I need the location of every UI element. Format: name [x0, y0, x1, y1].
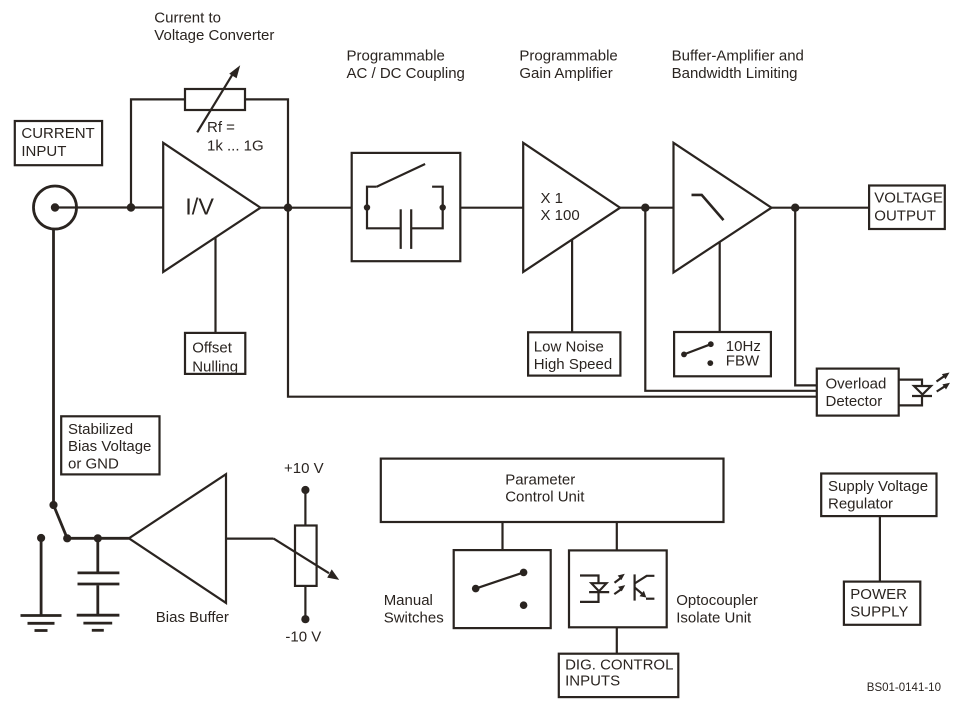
- wire regulator to power supply: [879, 516, 881, 582]
- svg-text:Isolate Unit: Isolate Unit: [676, 609, 752, 626]
- svg-text:Parameter: Parameter: [505, 471, 575, 488]
- svg-text:or GND: or GND: [68, 456, 119, 473]
- svg-text:Bandwidth Limiting: Bandwidth Limiting: [672, 65, 798, 82]
- POWER SUPPLY box: [844, 582, 920, 625]
- svg-text:Overload: Overload: [826, 376, 887, 393]
- svg-text:Bias Buffer: Bias Buffer: [156, 609, 229, 626]
- svg-text:Rf =: Rf =: [207, 119, 235, 136]
- VOLTAGE OUTPUT box: [869, 186, 945, 230]
- wire feedback right: [245, 99, 288, 207]
- capacitor C1 in coupling box: [367, 208, 443, 249]
- wire optocoupler to dig inputs: [616, 627, 618, 653]
- node buffer output: [791, 204, 799, 212]
- LED D2 in optocoupler: [580, 576, 609, 602]
- wire feedback left+top: [131, 99, 185, 207]
- svg-text:X 100: X 100: [541, 207, 580, 224]
- svg-text:Supply Voltage: Supply Voltage: [828, 478, 928, 495]
- Stabilized Bias Voltage or GND box: [61, 416, 159, 474]
- switch S2 bias select arm: [54, 505, 68, 538]
- svg-text:Gain Amplifier: Gain Amplifier: [519, 65, 612, 82]
- GND contact of bias switch: [37, 534, 45, 615]
- label: Current to Voltage Converter: [154, 10, 274, 44]
- ground symbol under capacitor: [77, 615, 120, 630]
- wire I/V output down to overload bus: [288, 208, 817, 397]
- +10 V supply terminal: [284, 460, 324, 525]
- svg-text:SUPPLY: SUPPLY: [850, 603, 908, 620]
- CURRENT INPUT box: [15, 121, 102, 165]
- svg-text:1k ... 1G: 1k ... 1G: [207, 138, 264, 155]
- wire bias rail: [67, 537, 129, 540]
- label: Optocoupler Isolate Unit: [676, 592, 758, 627]
- wire input to I/V: [59, 206, 163, 208]
- LED light arrows: [937, 373, 951, 392]
- svg-text:BS01-0141-10: BS01-0141-10: [867, 682, 941, 694]
- op-amp U1 I/V converter: [163, 143, 260, 272]
- Overload Detector box: [817, 369, 899, 416]
- amplifier U4 bias buffer: [129, 474, 226, 603]
- Parameter Control Unit box: [381, 459, 724, 522]
- wire input down to bias switch: [52, 230, 55, 506]
- Supply Voltage Regulator box: [821, 474, 936, 517]
- variable resistor arrow: [197, 65, 240, 132]
- node capacitor tap: [94, 534, 102, 542]
- Offset Nulling box: [185, 333, 245, 376]
- node I/V output: [284, 204, 292, 212]
- svg-text:INPUTS: INPUTS: [565, 672, 620, 689]
- svg-text:Offset: Offset: [192, 339, 233, 356]
- svg-text:Detector: Detector: [826, 393, 883, 410]
- svg-text:INPUT: INPUT: [21, 143, 66, 160]
- svg-text:Bias Voltage: Bias Voltage: [68, 438, 151, 455]
- wire PCU to manual switches: [501, 522, 503, 550]
- svg-text:Low Noise: Low Noise: [534, 339, 604, 356]
- ground symbol left: [21, 616, 62, 631]
- label: Programmable AC / DC Coupling: [347, 47, 465, 82]
- svg-text:Manual: Manual: [384, 592, 433, 609]
- -10 V supply terminal: [285, 586, 321, 646]
- phototransistor Q1 in optocoupler: [635, 574, 655, 600]
- resistor Rf: [185, 89, 245, 110]
- wire gain amp to low noise box: [571, 240, 573, 333]
- AC/DC coupling box: [352, 153, 461, 261]
- svg-text:Programmable: Programmable: [347, 47, 445, 64]
- svg-text:OUTPUT: OUTPUT: [874, 208, 936, 225]
- wire bias buffer output: [226, 537, 274, 539]
- Manual Switches box: [454, 550, 551, 628]
- wire buffer output down to overload detector: [795, 208, 817, 386]
- svg-text:Regulator: Regulator: [828, 496, 893, 513]
- wire buffer to 10Hz box: [719, 242, 721, 332]
- Optocoupler box: [569, 550, 667, 627]
- input connector circle: [34, 186, 77, 229]
- label: Manual Switches: [384, 592, 444, 627]
- potentiometer R2: [274, 526, 340, 586]
- svg-text:Programmable: Programmable: [519, 47, 617, 64]
- svg-text:POWER: POWER: [850, 586, 907, 603]
- svg-text:Voltage Converter: Voltage Converter: [154, 27, 274, 44]
- svg-text:Nulling: Nulling: [192, 359, 238, 376]
- amplifier U3 buffer with bandwidth limiting: [674, 143, 772, 273]
- svg-text:X 1: X 1: [541, 190, 564, 207]
- svg-text:FBW: FBW: [726, 352, 760, 369]
- svg-text:Control Unit: Control Unit: [505, 489, 585, 506]
- svg-text:VOLTAGE: VOLTAGE: [874, 190, 943, 207]
- label: Programmable Gain Amplifier: [519, 47, 617, 82]
- svg-text:Current to: Current to: [154, 10, 221, 27]
- svg-text:+10 V: +10 V: [284, 460, 324, 477]
- svg-text:Optocoupler: Optocoupler: [676, 592, 758, 609]
- svg-text:CURRENT: CURRENT: [21, 125, 94, 142]
- wire I/V output to coupling box: [261, 207, 352, 209]
- Low Noise High Speed box: [528, 332, 620, 375]
- node bias switch pole: [49, 501, 57, 509]
- node gain output: [641, 204, 649, 212]
- switch S1 in coupling box: [364, 164, 446, 211]
- node input junction: [127, 203, 135, 211]
- svg-text:AC / DC Coupling: AC / DC Coupling: [347, 65, 465, 82]
- LED D1 overload indicator: [899, 380, 932, 406]
- wire coupling to gain amp: [460, 207, 523, 209]
- label: Rf = 1k ... 1G: [207, 119, 264, 155]
- wire gain output down to overload bus: [645, 208, 817, 391]
- node bias rail left: [63, 534, 71, 542]
- svg-text:Stabilized: Stabilized: [68, 421, 133, 438]
- svg-text:Switches: Switches: [384, 610, 444, 627]
- wire gain amp to buffer: [620, 207, 673, 209]
- svg-text:-10 V: -10 V: [285, 629, 321, 646]
- DIG. CONTROL INPUTS box: [559, 654, 679, 697]
- svg-text:High Speed: High Speed: [534, 356, 612, 373]
- wire I/V to offset nulling: [214, 238, 216, 334]
- capacitor C2 bias filter: [78, 538, 120, 614]
- 10Hz / FBW box: [674, 332, 771, 376]
- optocoupler light arrows: [614, 574, 625, 594]
- svg-text:I/V: I/V: [185, 193, 214, 219]
- amplifier U2 programmable gain: [523, 143, 620, 272]
- wire buffer to voltage output: [772, 207, 870, 209]
- svg-text:DIG. CONTROL: DIG. CONTROL: [565, 657, 673, 674]
- label: Buffer-Amplifier and Bandwidth Limiting: [672, 47, 804, 82]
- svg-text:Buffer-Amplifier and: Buffer-Amplifier and: [672, 47, 804, 64]
- wire PCU to optocoupler: [616, 522, 618, 550]
